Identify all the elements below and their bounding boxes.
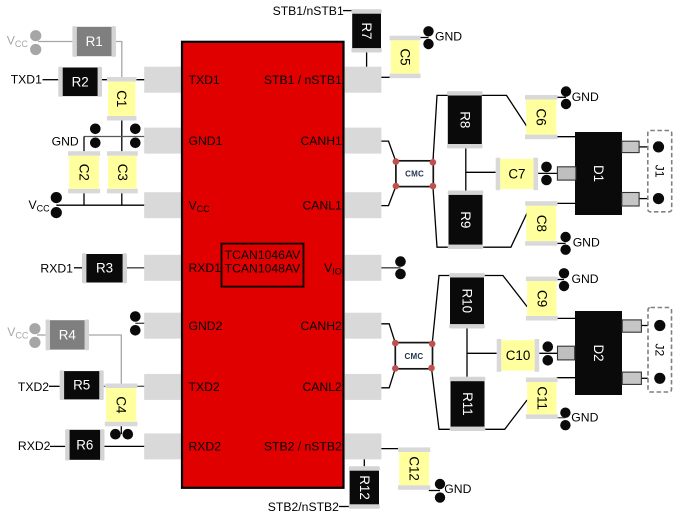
- svg-text:TCAN1048AV: TCAN1048AV: [225, 261, 302, 275]
- wire R10 to R11 junction: [466, 329, 468, 377]
- via pair node C7/D1: [541, 162, 552, 186]
- svg-text:C3: C3: [115, 164, 130, 181]
- svg-text:C12: C12: [407, 456, 422, 481]
- svg-text:CANL2: CANL2: [303, 380, 343, 394]
- svg-text:STB2 / nSTB2: STB2 / nSTB2: [264, 440, 342, 454]
- capacitor C5: [390, 36, 421, 78]
- capacitor C3: [107, 151, 138, 193]
- wire D1 pin to J1 top: [639, 146, 653, 148]
- capacitor C7: [496, 158, 538, 191]
- svg-text:C4: C4: [114, 396, 129, 414]
- wire Vcc dots to R4 (grey): [37, 334, 46, 336]
- resistor R4: [46, 320, 89, 351]
- pin stub right CANH1: [345, 128, 382, 154]
- svg-text:R5: R5: [73, 378, 90, 393]
- via pair node GND C5: [423, 26, 433, 49]
- wire D2 pin to J2 top: [641, 325, 654, 327]
- svg-text:GND: GND: [573, 236, 600, 250]
- via pair node GND C6: [561, 86, 571, 109]
- wire C12 bottom to GND dots: [429, 490, 440, 492]
- resistor R11: [450, 377, 486, 431]
- svg-text:R11: R11: [460, 392, 475, 416]
- svg-text:J1: J1: [653, 165, 667, 178]
- svg-text:TXD2: TXD2: [18, 380, 49, 394]
- D1 right top pin: [622, 141, 639, 152]
- common-mode choke CMC2 box: [395, 343, 432, 369]
- pin stub left GND1: [144, 128, 181, 154]
- D2 right bottom pin: [622, 372, 641, 384]
- wire C7 to D1 middle pin: [538, 172, 557, 174]
- svg-text:GND: GND: [571, 411, 598, 425]
- svg-text:GND: GND: [444, 482, 471, 496]
- wire R1 to C1 top (grey): [116, 42, 122, 79]
- wire STB2 label to R12: [339, 506, 350, 508]
- J2 pin dots: [654, 320, 665, 384]
- capacitor C8: [525, 201, 557, 246]
- wire STB2 pin to C12: [381, 448, 399, 450]
- wire CANL1 pin to CMC1: [381, 186, 396, 206]
- via pair node GND C11: [560, 408, 570, 431]
- svg-text:C7: C7: [508, 167, 525, 182]
- svg-text:C2: C2: [77, 164, 92, 181]
- resistor R6: [65, 429, 104, 460]
- svg-text:CANH1: CANH1: [300, 134, 342, 148]
- common-mode choke CMC1 box: [396, 161, 433, 187]
- pin stub right STB1/nSTB1: [345, 67, 382, 93]
- pin stub right CANL1: [345, 192, 382, 218]
- wire GND bus to C2 top: [83, 137, 85, 152]
- via pair node GND C9: [559, 268, 569, 291]
- wire C2 bottom to Vcc bus: [83, 193, 85, 205]
- wire R5 to TXD2 pin: [104, 385, 145, 387]
- wire C11 top to D2: [557, 377, 576, 379]
- svg-text:C8: C8: [534, 215, 549, 232]
- TVS diode D1 body: [575, 132, 622, 215]
- via pair node GND C8: [560, 232, 570, 255]
- resistor R5: [60, 370, 104, 400]
- svg-text:RXD1: RXD1: [40, 261, 73, 275]
- wire GND2 dots to pin: [135, 322, 144, 324]
- svg-text:R2: R2: [72, 74, 89, 89]
- wire CMC1 to R8 top to C6: [433, 95, 527, 162]
- svg-text:TXD2: TXD2: [189, 380, 220, 394]
- svg-text:R9: R9: [458, 211, 473, 228]
- svg-text:TCAN1046AV: TCAN1046AV: [225, 248, 302, 262]
- svg-text:GND: GND: [572, 90, 599, 104]
- wire C8 top to D1: [556, 202, 575, 204]
- resistor R12: [349, 466, 380, 508]
- resistor R10: [449, 273, 485, 328]
- via pair node GND C12: [435, 479, 445, 503]
- svg-text:GND: GND: [572, 272, 599, 286]
- resistor R3: [82, 253, 127, 283]
- resistor R8: [447, 91, 483, 148]
- wire C11 bottom to GND dots: [557, 417, 566, 419]
- via pair node GND2: [130, 311, 141, 335]
- via pair node GND1 left: [90, 124, 101, 149]
- wire C6 top to GND dots: [556, 96, 566, 98]
- svg-text:STB1 / nSTB1: STB1 / nSTB1: [264, 73, 342, 87]
- wire STB2 pin to R12: [363, 459, 365, 466]
- wire C5 top to GND dots: [419, 37, 428, 39]
- CMC2 terminal dots: [392, 340, 436, 372]
- TVS diode D2 body: [575, 311, 622, 395]
- wire C6 bottom to D1: [556, 136, 575, 138]
- svg-text:CMC: CMC: [404, 352, 423, 361]
- capacitor C10: [497, 339, 539, 372]
- svg-text:R6: R6: [76, 437, 93, 452]
- capacitor C9: [526, 277, 558, 321]
- pin stub left RXD2: [144, 433, 181, 459]
- pin stub left TXD2: [144, 374, 181, 400]
- wire CMC1 to R9 bottom to C8: [433, 186, 527, 247]
- wire CMC2 to R11 bottom to C11: [432, 368, 528, 429]
- svg-text:RXD2: RXD2: [18, 439, 51, 453]
- svg-text:RXD1: RXD1: [189, 261, 222, 275]
- via pair node VIO: [395, 256, 406, 279]
- wire TXD1 label to R2: [43, 79, 59, 81]
- wire CANL2 pin to CMC2: [381, 368, 395, 387]
- wire STB1 pin to C5: [381, 76, 390, 78]
- wire C3 bottom to Vcc bus: [121, 193, 123, 205]
- wire C8 bottom to GND dots: [556, 242, 565, 244]
- wire C10 to D2 middle pin: [539, 352, 557, 354]
- wire TXD2 label to R5: [49, 385, 60, 387]
- svg-text:RXD2: RXD2: [189, 440, 222, 454]
- pin stub right VIO: [345, 255, 382, 281]
- svg-text:C5: C5: [398, 48, 413, 65]
- capacitor C1: [107, 77, 137, 121]
- wire R2 to TXD1 pin: [102, 79, 144, 81]
- wire C9 bottom to D2: [557, 317, 576, 319]
- capacitor C11: [526, 378, 558, 419]
- svg-text:R3: R3: [96, 261, 113, 276]
- wire R8 to R9 junction: [465, 148, 467, 190]
- svg-text:STB2/nSTB2: STB2/nSTB2: [268, 500, 339, 514]
- J1 pin dots: [653, 141, 664, 204]
- wire STB1 label to R7: [343, 10, 352, 12]
- pin stub left VCC: [144, 192, 181, 218]
- svg-text:J2: J2: [653, 343, 667, 356]
- via pair node C10/D2: [543, 341, 554, 365]
- resistor R1: [72, 26, 116, 57]
- svg-text:D1: D1: [591, 165, 606, 182]
- svg-text:R12: R12: [357, 475, 372, 500]
- wire junction to C7: [466, 171, 496, 173]
- pin stub right STB2/nSTB2: [345, 433, 382, 459]
- via pair node Vcc bottom: [51, 192, 62, 218]
- wire Vcc dots to R1 (grey): [38, 41, 72, 43]
- via pair node Vcc top (grey): [30, 30, 41, 55]
- svg-text:GND1: GND1: [189, 134, 223, 148]
- svg-text:C6: C6: [534, 109, 549, 126]
- svg-text:C10: C10: [506, 348, 531, 363]
- wire CANH1 pin to CMC1: [381, 141, 396, 162]
- svg-text:C9: C9: [534, 290, 549, 307]
- wire R7 to STB1 pin: [366, 53, 368, 67]
- svg-text:CMC: CMC: [405, 170, 424, 179]
- pin stub left RXD1: [144, 255, 181, 281]
- wire RXD2 label to R6: [50, 445, 65, 447]
- svg-text:C11: C11: [534, 386, 549, 410]
- resistor R9: [448, 191, 484, 250]
- resistor R2: [58, 67, 102, 97]
- connector J1 dashed box: [648, 131, 672, 212]
- D2 right top pin: [622, 320, 641, 332]
- CMC1 terminal dots: [393, 158, 437, 189]
- wire R6 to RXD2 pin: [105, 445, 145, 447]
- wire C9 top to GND dots: [557, 279, 565, 281]
- via pair node C4/RXD2: [110, 429, 133, 440]
- svg-text:D2: D2: [591, 344, 606, 361]
- connector J2 dashed box: [648, 308, 672, 393]
- capacitor C6: [525, 95, 558, 139]
- svg-text:STB1/nSTB1: STB1/nSTB1: [273, 4, 344, 18]
- D1 right bottom pin: [622, 193, 639, 207]
- svg-text:R4: R4: [59, 327, 77, 342]
- svg-text:GND: GND: [435, 30, 462, 44]
- wire junction to C10: [467, 352, 497, 354]
- svg-text:GND: GND: [52, 134, 79, 148]
- resistor R7: [351, 9, 381, 52]
- svg-text:CANL1: CANL1: [303, 199, 343, 213]
- wire R4 to C4 top (grey): [89, 335, 121, 386]
- wire C4 bottom to via dots: [120, 426, 122, 434]
- IC U1 TCAN1046AV body: [182, 42, 344, 488]
- pin stub left TXD1: [144, 67, 181, 93]
- capacitor C2: [68, 151, 100, 193]
- via pair node Vcc R4 (grey): [29, 323, 40, 348]
- D2 left middle pin: [558, 346, 575, 360]
- svg-text:R7: R7: [359, 22, 374, 39]
- D1 left middle pin: [557, 167, 576, 180]
- svg-text:R10: R10: [460, 289, 475, 314]
- wire D1 pin to J1 bottom: [639, 198, 653, 200]
- via pair node GND1 right: [130, 124, 141, 149]
- wire C1 bottom to C3 top: [121, 121, 123, 152]
- pin stub left GND2: [144, 313, 181, 339]
- IC part number box: [222, 244, 304, 287]
- pin stub right CANH2: [345, 313, 382, 339]
- wire D2 pin to J2 bottom: [641, 377, 654, 379]
- svg-text:GND2: GND2: [189, 319, 223, 333]
- svg-text:R1: R1: [86, 34, 103, 49]
- wire R3 to RXD1 pin: [127, 267, 144, 269]
- capacitor C12: [398, 447, 430, 489]
- wire CANH2 pin to CMC2: [381, 324, 395, 343]
- capacitor C4: [105, 384, 138, 427]
- wire GND bus: [84, 136, 144, 138]
- svg-text:TXD1: TXD1: [11, 73, 42, 87]
- svg-text:R8: R8: [457, 111, 472, 128]
- svg-text:TXD1: TXD1: [189, 73, 220, 87]
- svg-text:C1: C1: [114, 90, 129, 107]
- svg-text:CANH2: CANH2: [300, 319, 342, 333]
- wire RXD1 label to R3: [74, 267, 82, 269]
- wire Vcc bus: [56, 204, 144, 206]
- wire VIO pin to dots: [381, 267, 400, 269]
- wire CMC2 to R10 top to C9: [432, 276, 527, 344]
- pin stub right CANL2: [345, 374, 382, 400]
